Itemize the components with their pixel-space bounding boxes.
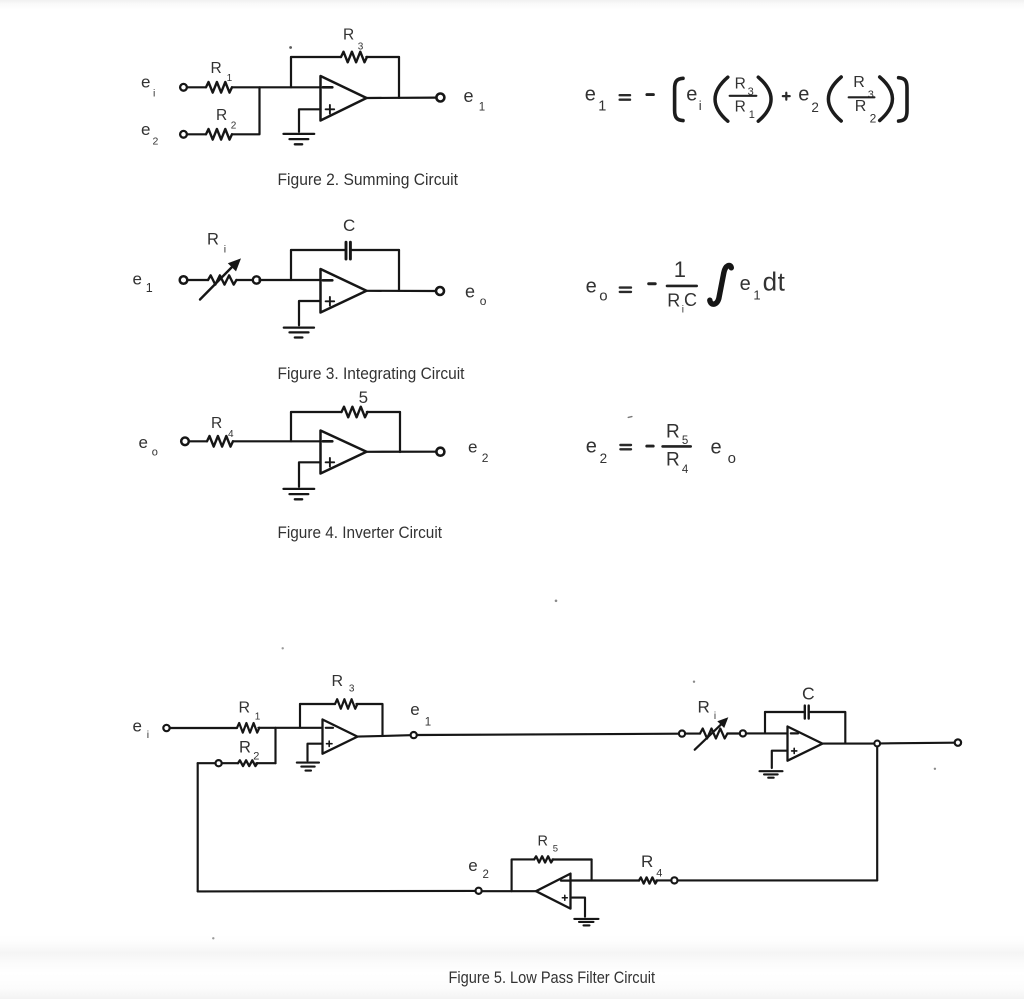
eq1 left bracket <box>675 78 683 120</box>
wire op-amp A plus to ground <box>308 744 323 761</box>
svg-text:o: o <box>152 446 158 458</box>
eq1 fraction bar 2 <box>849 96 875 98</box>
node e_2 output terminal <box>436 448 444 456</box>
svg-text:e: e <box>686 84 697 106</box>
eq1 minus sign <box>647 93 654 96</box>
wire e_2 to left vertical <box>198 890 476 893</box>
op-amp C minus mark <box>561 879 571 881</box>
svg-text:3: 3 <box>358 41 364 52</box>
wire op-amp A output <box>358 735 411 736</box>
wire feedback top right segment <box>367 411 400 413</box>
wire terminal to R4 fig5 <box>656 879 671 881</box>
capacitor C fig5 <box>805 706 809 719</box>
eq1 open paren 2 <box>828 77 841 121</box>
svg-text:R: R <box>698 697 710 716</box>
wire mid terminal to op-amp <box>259 279 320 281</box>
resistor R2 <box>206 129 232 140</box>
speck dot <box>289 46 292 49</box>
eq3 minus sign <box>647 445 653 448</box>
wire op-amp C output (left) <box>482 890 536 892</box>
op-amp A minus mark <box>326 727 333 729</box>
op-amp U3 plus input mark <box>326 458 335 467</box>
wire summing junction riser to R2 line <box>274 728 276 763</box>
eq3 fraction bar <box>663 445 691 448</box>
wire e_i to R1 fig5 <box>170 727 237 729</box>
resistor R1 <box>206 82 232 93</box>
node e_1 input terminal <box>180 276 188 284</box>
eq1 equals sign <box>620 95 631 100</box>
wire terminal to variable resistor <box>187 279 208 281</box>
wire R2 corner to terminal <box>198 762 216 764</box>
wire feedback B top right <box>810 712 846 743</box>
eq2 minus sign <box>649 282 656 285</box>
wire feedback A left riser <box>299 704 301 728</box>
node e_i input terminal <box>180 84 187 91</box>
ground symbol fig4 <box>284 489 315 499</box>
eq1 close paren 2 <box>880 77 893 121</box>
wire feedback top left segment <box>291 411 342 413</box>
variable resistor Ri fig5 <box>700 729 727 739</box>
svg-text:4: 4 <box>682 464 689 476</box>
svg-text:R: R <box>207 231 219 249</box>
wire feedback left riser <box>290 412 292 441</box>
node junction (output node) <box>874 741 880 747</box>
node e_o input terminal <box>181 438 189 446</box>
svg-text:3: 3 <box>868 89 874 101</box>
op-amp C triangle (points left) <box>536 874 571 909</box>
op-amp B plus mark <box>792 748 797 753</box>
eq2 integral sign <box>710 265 732 304</box>
svg-text:R: R <box>211 60 222 77</box>
svg-text:Figure 4. Inverter Circuit: Figure 4. Inverter Circuit <box>278 524 443 542</box>
wire non-inverting input to ground <box>299 301 321 325</box>
eq1 fraction bar 1 <box>730 95 757 97</box>
wire op-amp output to terminal <box>367 290 437 292</box>
svg-text:R: R <box>666 422 680 443</box>
op-amp B minus mark <box>791 732 798 734</box>
svg-text:e: e <box>465 281 475 301</box>
wire terminal to R2 fig5 <box>222 762 238 764</box>
wire feedback top right segment <box>350 249 399 251</box>
ground symbol fig5 B <box>760 771 783 778</box>
wire R2 to summing junction <box>232 87 260 134</box>
op-amp B triangle <box>788 727 823 761</box>
wire op-amp C plus to ground <box>571 898 586 917</box>
svg-text:R: R <box>332 673 344 690</box>
svg-text:1: 1 <box>146 281 153 295</box>
svg-text:2: 2 <box>253 750 259 762</box>
svg-text:R: R <box>538 834 548 850</box>
variable resistor Ri arrow fig5 <box>695 717 729 750</box>
resistor R1 fig5 <box>237 723 259 733</box>
svg-text:dt: dt <box>763 267 786 297</box>
wire Ri to right terminal <box>727 732 739 734</box>
ground symbol fig5 A <box>297 763 319 771</box>
svg-text:R: R <box>666 450 680 471</box>
speck dot fig5 b <box>934 768 936 770</box>
wire feedback A top right <box>356 704 382 736</box>
svg-text:1: 1 <box>255 711 261 722</box>
variable resistor Ri zigzag <box>208 275 236 284</box>
svg-text:2: 2 <box>483 869 489 881</box>
wire op-amp B output to junction <box>823 743 874 745</box>
wire feedback B left riser <box>764 712 766 733</box>
wire junction to output terminal <box>880 742 955 745</box>
op-amp U1 plus input mark <box>326 105 335 114</box>
speck dot fig5 e <box>212 937 214 939</box>
svg-text:R: R <box>735 75 746 92</box>
svg-text:5: 5 <box>682 435 688 447</box>
op-amp C plus mark <box>562 895 567 900</box>
eq1 plus sign <box>783 93 790 100</box>
svg-text:i: i <box>714 711 716 722</box>
svg-text:R: R <box>735 99 746 116</box>
node e_i input terminal fig5 <box>163 725 169 731</box>
svg-text:Figure 3. Integrating Circuit: Figure 3. Integrating Circuit <box>278 365 465 383</box>
svg-text:4: 4 <box>228 429 234 440</box>
wire feedback right riser <box>399 412 401 452</box>
resistor R4 fig5 <box>639 877 657 883</box>
wire left vertical feedback return <box>197 763 199 891</box>
svg-text:e: e <box>141 73 150 92</box>
svg-text:5: 5 <box>553 844 558 855</box>
speck dot fig5 a <box>693 681 695 683</box>
op-amp U1 minus input mark <box>323 86 333 89</box>
svg-text:e: e <box>711 436 722 458</box>
svg-text:2: 2 <box>870 112 877 126</box>
svg-text:2: 2 <box>600 451 608 466</box>
svg-text:o: o <box>480 294 487 308</box>
svg-text:R: R <box>641 852 653 871</box>
node e_2 terminal fig5 <box>476 888 482 894</box>
wire non-inverting input to ground <box>299 462 321 487</box>
svg-text:e: e <box>139 433 148 452</box>
wire feedback top left segment <box>291 56 341 58</box>
ground symbol fig5 C <box>574 919 598 926</box>
eq2 fraction bar <box>667 285 697 288</box>
wire R1 to op-amp inverting input <box>232 86 321 88</box>
svg-text:2: 2 <box>811 100 819 115</box>
wire terminal to op-amp B <box>746 732 787 734</box>
svg-text:1: 1 <box>479 101 485 113</box>
svg-text:R: R <box>239 700 251 717</box>
wire R2 to riser fig5 <box>256 762 275 764</box>
resistor R3 <box>341 52 367 63</box>
wire R1 to op-amp A <box>258 727 322 729</box>
svg-text:e: e <box>740 273 751 295</box>
wire e_2 to R2 <box>187 133 206 135</box>
eq3 equals sign <box>620 445 631 449</box>
node e_1 terminal fig5 <box>411 732 417 738</box>
variable resistor Ri arrow <box>200 258 241 299</box>
svg-text:e: e <box>798 84 809 106</box>
op-amp U2 minus input mark <box>323 279 333 282</box>
svg-text:o: o <box>599 288 607 305</box>
op-amp U3 minus input mark <box>323 440 333 443</box>
op-amp U3 <box>321 431 367 474</box>
svg-text:2: 2 <box>231 120 237 131</box>
svg-text:R: R <box>855 98 867 115</box>
svg-text:e: e <box>133 269 142 288</box>
wire to mid terminal <box>236 279 252 281</box>
svg-text:i: i <box>147 729 149 741</box>
node Ri right terminal <box>740 730 746 736</box>
svg-text:1: 1 <box>598 98 606 114</box>
svg-text:C: C <box>343 216 355 235</box>
svg-text:Figure 2. Summing Circuit: Figure 2. Summing Circuit <box>278 171 459 189</box>
resistor R3 fig5 <box>335 699 357 709</box>
wire feedback right vertical drop <box>876 746 878 880</box>
svg-text:2: 2 <box>153 136 159 148</box>
svg-text:R: R <box>667 291 680 311</box>
svg-text:R: R <box>216 107 227 124</box>
op-amp U2 plus input mark <box>326 297 335 306</box>
node mid terminal <box>253 276 260 283</box>
node R4 terminal fig5 <box>671 877 677 883</box>
wire non-inverting input to ground <box>299 109 321 132</box>
resistor R5 fig5 <box>534 856 553 862</box>
wire feedback C right riser <box>591 860 593 881</box>
node e_o output terminal <box>436 287 444 295</box>
svg-text:4: 4 <box>656 868 662 880</box>
wire bottom right to R4 terminal <box>678 879 878 881</box>
svg-text:1: 1 <box>749 109 755 121</box>
svg-text:e: e <box>410 700 419 719</box>
eq3 speck <box>628 416 632 419</box>
svg-text:e: e <box>585 83 596 105</box>
svg-text:C: C <box>684 290 697 310</box>
wire op-amp output to terminal <box>367 451 437 453</box>
svg-text:1: 1 <box>753 288 760 303</box>
wire op-amp output to terminal <box>367 96 437 99</box>
svg-text:R: R <box>853 74 865 91</box>
svg-text:2: 2 <box>482 451 489 465</box>
wire feedback C top right <box>552 858 591 860</box>
wire feedback top right segment <box>366 56 399 58</box>
wire terminal to R4 <box>189 440 207 442</box>
wire feedback B top left <box>765 711 804 713</box>
svg-text:e: e <box>586 436 597 458</box>
svg-text:i: i <box>699 98 702 113</box>
svg-text:e: e <box>464 86 474 106</box>
svg-text:e: e <box>141 120 150 139</box>
wire feedback top left segment <box>291 249 345 251</box>
wire R4 to op-amp <box>233 440 321 442</box>
svg-text:Figure 5. Low Pass Filter Cir: Figure 5. Low Pass Filter Circuit <box>449 969 656 987</box>
svg-text:1: 1 <box>674 257 686 282</box>
svg-text:e: e <box>586 275 597 297</box>
resistor R2 fig5 <box>238 760 257 766</box>
wire e_i to R1 <box>187 86 206 88</box>
node R2 terminal fig5 <box>216 760 222 766</box>
op-amp A plus mark <box>327 741 333 746</box>
svg-text:R: R <box>239 739 251 757</box>
wire R4 to op-amp C input <box>571 879 639 881</box>
wire op-amp B plus to ground <box>772 751 788 768</box>
ground symbol fig2 <box>284 134 315 144</box>
node e_2 input terminal <box>180 131 187 138</box>
wire feedback right riser <box>398 250 400 291</box>
op-amp A triangle <box>323 720 358 754</box>
svg-text:5: 5 <box>359 388 368 407</box>
eq1 open paren 1 <box>715 77 728 121</box>
eq1 right bracket <box>899 78 907 121</box>
node Ri left terminal <box>679 731 685 737</box>
wire terminal to Ri <box>685 733 700 735</box>
speck dot fig5 c <box>555 600 558 603</box>
svg-text:3: 3 <box>349 684 355 695</box>
ground symbol fig3 <box>284 328 314 338</box>
capacitor C <box>346 242 350 259</box>
svg-text:o: o <box>728 450 736 467</box>
svg-text:i: i <box>153 87 155 99</box>
svg-text:e: e <box>133 716 142 735</box>
node output terminal far right <box>955 739 961 745</box>
speck dot fig5 d <box>282 647 284 649</box>
svg-text:1: 1 <box>227 73 233 84</box>
svg-text:e: e <box>468 437 477 456</box>
svg-text:i: i <box>224 243 226 255</box>
wire e_1 to Ri (long) <box>417 734 679 735</box>
wire feedback left riser <box>290 57 292 87</box>
resistor R4 <box>207 436 233 447</box>
eq1 close paren 1 <box>758 77 771 121</box>
wire feedback A top left <box>300 703 335 705</box>
op-amp U2 <box>321 269 367 313</box>
svg-text:R: R <box>343 27 354 44</box>
wire feedback right riser to output <box>398 57 400 98</box>
wire feedback C top left <box>512 859 535 891</box>
node e_1 output terminal <box>436 94 444 102</box>
op-amp U1 <box>321 76 367 121</box>
svg-text:1: 1 <box>425 717 431 729</box>
svg-text:e: e <box>468 856 477 875</box>
svg-text:R: R <box>211 415 222 432</box>
wire feedback left riser <box>290 250 292 280</box>
resistor R5 <box>342 407 368 418</box>
eq2 equals sign <box>620 288 631 292</box>
svg-text:C: C <box>802 684 815 704</box>
